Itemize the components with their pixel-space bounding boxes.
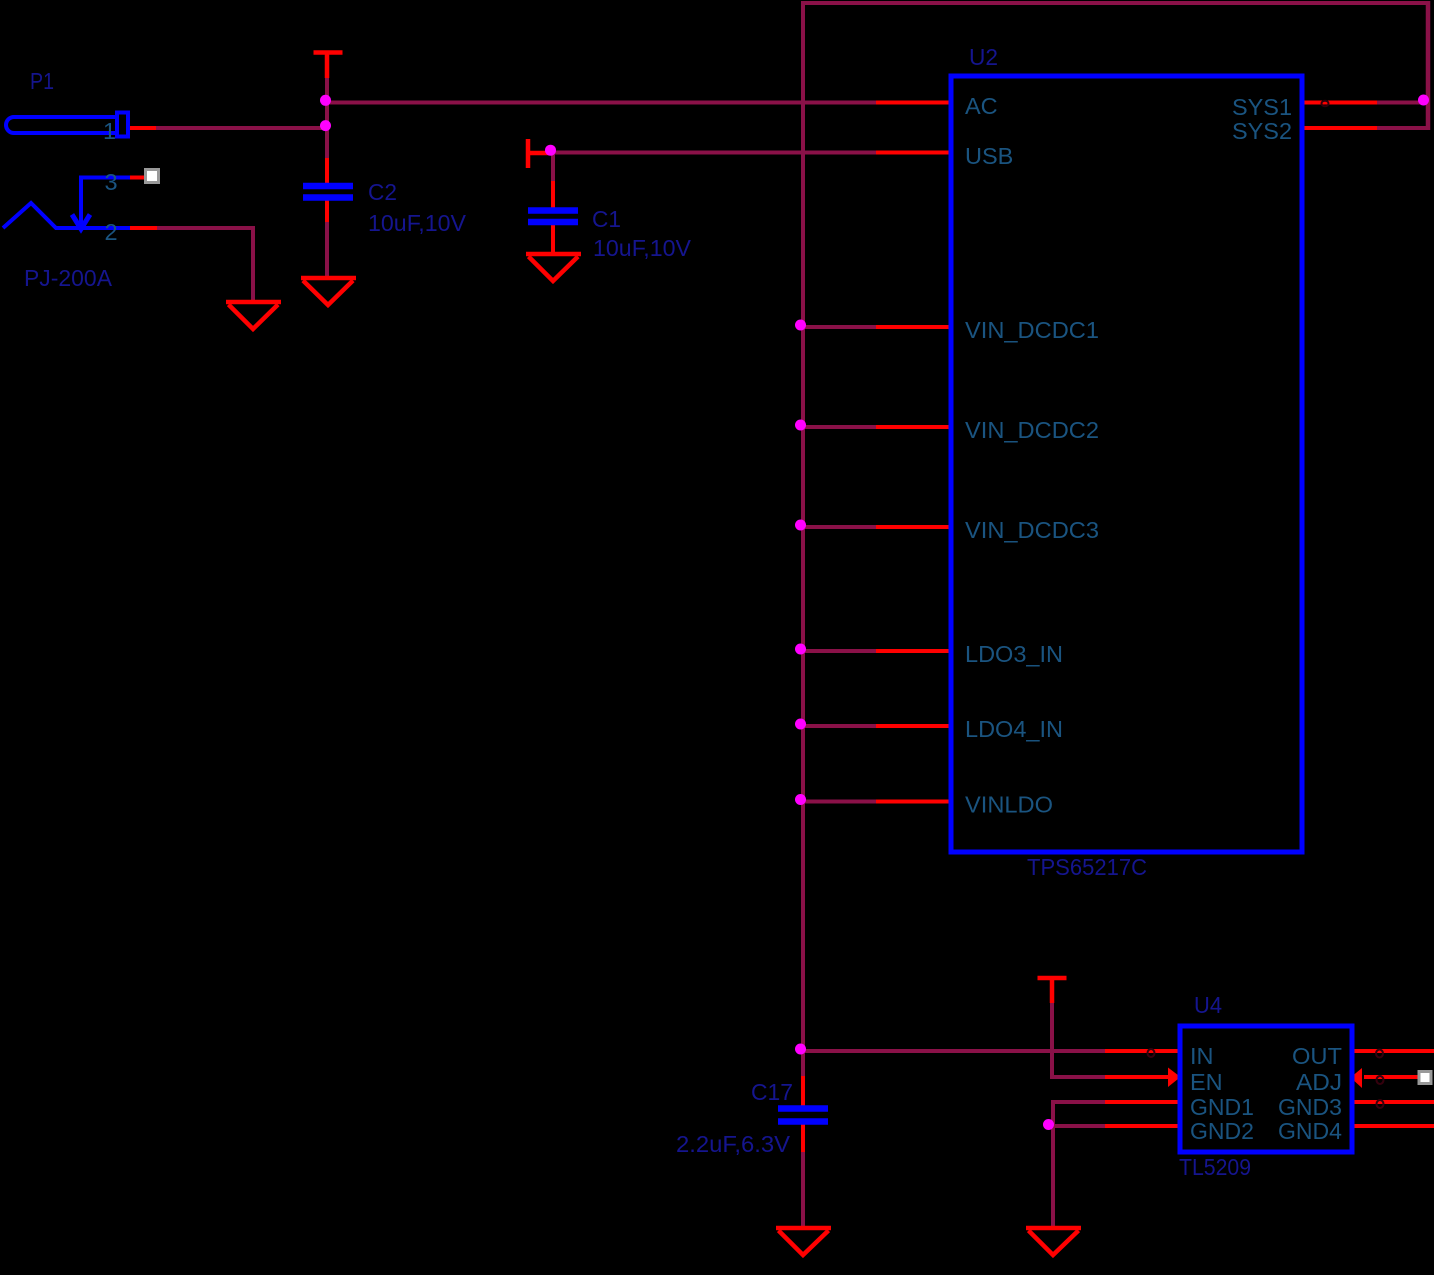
IC U2 body <box>951 76 1302 852</box>
wire SYS1 to right vertical <box>1375 101 1430 105</box>
capacitor C1 plates <box>528 211 578 223</box>
pin U4 OUT <box>1352 1049 1434 1053</box>
wire LDO4_IN stub <box>803 724 880 728</box>
connector P1 pin3 arrowhead <box>72 215 90 230</box>
capacitor C1 leads <box>551 181 555 255</box>
wire AC row <box>327 101 880 105</box>
pin AC <box>876 101 951 105</box>
pin number ellipse on SYS1 <box>1322 101 1329 107</box>
IC U4 body <box>1180 1026 1352 1152</box>
pin VIN_DCDC1 <box>876 325 951 329</box>
connector P1 barrel sleeve <box>6 117 116 133</box>
wire GND1 row <box>1053 1102 1108 1229</box>
wire C17 node to U4 IN <box>803 1049 1108 1053</box>
svg-text:VIN_DCDC3: VIN_DCDC3 <box>965 517 1099 543</box>
pin U4 GND1 <box>1105 1100 1180 1104</box>
wire VIN_DCDC1 stub <box>803 325 880 329</box>
power flag above C2 <box>314 53 343 79</box>
wire SYS2 to right vertical <box>1375 126 1430 130</box>
junction U4 GND2 <box>1043 1119 1054 1130</box>
junction C2 node P1 <box>320 120 331 131</box>
svg-text:TL5209: TL5209 <box>1179 1154 1251 1180</box>
wire EN power stem <box>1050 1001 1054 1079</box>
power flag above U4 EN <box>1038 978 1067 1003</box>
svg-text:C1: C1 <box>592 206 621 232</box>
svg-text:SYS2: SYS2 <box>1232 118 1292 144</box>
pin number mark U4 GND3 <box>1377 1100 1384 1108</box>
ground below P1 pin2 <box>226 302 281 329</box>
pin U4 GND4 <box>1352 1124 1434 1128</box>
pin U4 IN <box>1105 1049 1180 1053</box>
capacitor C17 leads <box>801 1076 805 1152</box>
pin number mark U4 OUT <box>1376 1050 1383 1058</box>
pin number mark U4 IN <box>1148 1049 1155 1057</box>
no-connect square at P1-3 <box>146 170 159 183</box>
wire C2 node vertical <box>325 77 329 161</box>
svg-text:VIN_DCDC2: VIN_DCDC2 <box>965 417 1099 443</box>
svg-text:GND4: GND4 <box>1278 1118 1342 1144</box>
pin P1-3 <box>130 176 147 180</box>
pin U4 EN with arrow <box>1105 1075 1168 1079</box>
pin VIN_DCDC3 <box>876 525 951 529</box>
pin P1-1 <box>130 126 156 130</box>
pin number mark U4 ADJ <box>1377 1076 1384 1084</box>
svg-text:U2: U2 <box>969 44 998 70</box>
pin U4 GND3 <box>1352 1100 1434 1104</box>
wire P1 pin1 to C2 node <box>155 126 327 130</box>
wire VIN_DCDC3 stub <box>803 525 880 529</box>
junction VIN_DCDC3 <box>795 520 806 531</box>
svg-text:10uF,10V: 10uF,10V <box>593 235 691 261</box>
junction LDO4_IN <box>795 719 806 730</box>
power flag at C1/USB <box>528 139 553 168</box>
connector P1 switch contact <box>3 203 130 228</box>
pin U4 GND2 <box>1105 1124 1180 1128</box>
wire LDO3_IN stub <box>803 649 880 653</box>
junction C17 node <box>795 1044 806 1055</box>
svg-text:PJ-200A: PJ-200A <box>24 265 112 291</box>
pin P1-2 <box>130 226 157 230</box>
pin SYS2 <box>1302 126 1377 130</box>
pin USB <box>876 151 951 155</box>
svg-text:VIN_DCDC1: VIN_DCDC1 <box>965 317 1099 343</box>
svg-text:C17: C17 <box>751 1079 793 1105</box>
svg-text:GND1: GND1 <box>1190 1094 1254 1120</box>
connector P1 pin3 line <box>81 178 130 225</box>
junction SYS1 right <box>1418 95 1429 106</box>
wire VINLDO stub <box>803 800 880 804</box>
pin LDO4_IN <box>876 724 951 728</box>
capacitor C2 leads <box>325 158 329 222</box>
svg-text:LDO4_IN: LDO4_IN <box>965 716 1063 742</box>
svg-text:ADJ: ADJ <box>1296 1069 1342 1095</box>
junction LDO3_IN <box>795 644 806 655</box>
svg-text:2.2uF,6.3V: 2.2uF,6.3V <box>676 1131 790 1157</box>
pin LDO3_IN <box>876 649 951 653</box>
ground below C2 <box>301 278 356 305</box>
svg-text:2: 2 <box>104 219 117 245</box>
wire EN row <box>1052 1075 1108 1079</box>
junction C1 node USB <box>545 145 556 156</box>
svg-text:AC: AC <box>965 93 998 119</box>
wire VDD net main vertical <box>801 1 805 1079</box>
capacitor C17 plates <box>778 1109 828 1122</box>
wire GND2 row <box>1053 1124 1108 1128</box>
pin VIN_DCDC2 <box>876 425 951 429</box>
ground below U4 GND <box>1026 1228 1081 1255</box>
svg-text:10uF,10V: 10uF,10V <box>368 210 466 236</box>
svg-text:USB: USB <box>965 143 1013 169</box>
svg-text:P1: P1 <box>30 68 54 94</box>
pin SYS1 <box>1302 101 1377 105</box>
ground below C1 <box>526 254 581 281</box>
svg-text:3: 3 <box>104 169 117 195</box>
wire USB row <box>551 151 880 155</box>
svg-text:EN: EN <box>1190 1069 1223 1095</box>
svg-text:TPS65217C: TPS65217C <box>1027 854 1147 880</box>
connector P1 tip box <box>117 113 128 137</box>
wire VIN_DCDC2 stub <box>803 425 880 429</box>
pin VINLDO <box>876 800 951 804</box>
ground below C17 <box>776 1228 831 1255</box>
capacitor C2 plates <box>303 186 353 198</box>
wire P1 pin2 to ground <box>156 228 253 303</box>
junction VIN_DCDC2 <box>795 420 806 431</box>
pin U4 ADJ with arrow from NC square <box>1364 1075 1420 1079</box>
svg-text:1: 1 <box>103 118 116 144</box>
no-connect square at ADJ <box>1419 1072 1431 1084</box>
svg-text:OUT: OUT <box>1292 1043 1342 1069</box>
wire C1 top <box>551 153 555 185</box>
wire C17 cap bottom to ground <box>801 1149 805 1229</box>
wire VDD net right vertical to SYS <box>1426 1 1431 130</box>
wire VDD net top horizontal <box>803 1 1430 5</box>
svg-text:LDO3_IN: LDO3_IN <box>965 641 1063 667</box>
svg-text:IN: IN <box>1190 1043 1214 1069</box>
svg-text:U4: U4 <box>1194 992 1222 1018</box>
junction VINLDO <box>795 794 806 805</box>
svg-text:VINLDO: VINLDO <box>965 792 1053 818</box>
junction VIN_DCDC1 <box>795 320 806 331</box>
svg-text:GND2: GND2 <box>1190 1118 1254 1144</box>
svg-text:SYS1: SYS1 <box>1232 94 1292 120</box>
wire C2 bottom to ground <box>325 218 329 278</box>
svg-text:C2: C2 <box>368 179 397 205</box>
svg-text:GND3: GND3 <box>1278 1094 1342 1120</box>
junction C2 node AC <box>320 95 331 106</box>
